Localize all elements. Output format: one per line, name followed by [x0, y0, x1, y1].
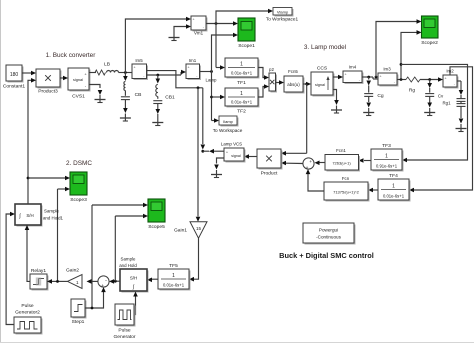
- svg-text:+: +: [193, 18, 195, 22]
- svg-text:7263(u+1): 7263(u+1): [332, 161, 351, 166]
- svg-text:Cv: Cv: [438, 94, 444, 99]
- svg-text:TF3: TF3: [382, 143, 391, 149]
- ground under CB1: [152, 118, 163, 126]
- scope Scope3: [70, 172, 87, 203]
- svg-text:1. Buck converter: 1. Buck converter: [46, 52, 97, 59]
- wire into Scope3 input 2: [58, 187, 71, 282]
- to-workspace block Ilamp / To Workspace: [213, 116, 243, 133]
- wire TF1 to p2 input 1: [258, 68, 269, 80]
- wire buck node up to Vm1 input 1: [125, 17, 191, 73]
- svg-text:p2: p2: [269, 67, 274, 72]
- wire Gain2 to Relay1: [47, 279, 68, 284]
- wire S/H2 output tap up to Scope5 input 2: [115, 214, 148, 282]
- svg-text:and Hold: and Hold: [119, 263, 137, 268]
- wire Product to Lamp VCS: [244, 154, 257, 159]
- controlled current source CCS: [311, 66, 335, 97]
- node Cg junction: [367, 76, 370, 79]
- wire Im4 to Im3: [362, 77, 378, 79]
- svg-text:Scope1: Scope1: [238, 43, 255, 49]
- svg-text:CB1: CB1: [165, 95, 175, 101]
- svg-text:Fcn: Fcn: [342, 176, 350, 181]
- resistor Rg1 branch under Im2: [457, 87, 466, 124]
- svg-text:CB: CB: [135, 92, 142, 98]
- wire lamp power down to Product input 1: [281, 84, 307, 156]
- svg-text:Im4: Im4: [349, 65, 357, 70]
- svg-text:0.01e-6s+1: 0.01e-6s+1: [383, 194, 405, 199]
- wire into Ilamp workspace block: [212, 118, 220, 123]
- svg-text:15: 15: [196, 226, 202, 231]
- node S/H1 output tap to Scope3: [27, 177, 30, 180]
- function block Fcn1: [325, 148, 360, 172]
- current measurement Im5: [132, 58, 148, 80]
- svg-text:Vlamp: Vlamp: [277, 9, 289, 14]
- powergui block: [303, 223, 356, 245]
- wire Im3 tap up to Scope2 input 2: [400, 30, 422, 79]
- resistor Rg: [406, 77, 438, 94]
- wire Pulse Generator2 to S/H1 input: [6, 212, 15, 325]
- wire Im1 signal down to TF2 and Ilamp: [210, 72, 213, 121]
- svg-text:Pulse: Pulse: [21, 303, 34, 309]
- relay block Relay1: [30, 268, 49, 291]
- svg-text:signal: signal: [315, 83, 325, 87]
- transfer function TF5: [158, 263, 191, 291]
- svg-text:TF1: TF1: [237, 80, 246, 86]
- svg-text:Relay1: Relay1: [31, 268, 47, 274]
- ground under Rg1: [456, 124, 467, 132]
- svg-text:Product: Product: [261, 171, 278, 177]
- wire Gain1 down to TF5: [189, 238, 199, 281]
- transfer function TF3: [371, 143, 404, 172]
- svg-text:+: +: [380, 75, 382, 79]
- wire down to Gain1: [196, 88, 201, 222]
- svg-text:Step1: Step1: [72, 319, 85, 325]
- wire Vm1 output up to Vlamp workspace: [216, 9, 273, 24]
- pulse generator block Pulse Generator: [113, 304, 135, 340]
- transfer function TF2: [225, 88, 260, 115]
- svg-text:Constant1: Constant1: [3, 84, 26, 90]
- svg-text:Fcn1: Fcn1: [336, 148, 346, 153]
- svg-text:Scope3: Scope3: [70, 197, 87, 203]
- wire sum1 to Gain2: [87, 279, 98, 284]
- capacitor CB branch (series RLC): [121, 73, 141, 114]
- product block Product: [257, 149, 283, 177]
- svg-text:CVS1: CVS1: [72, 94, 85, 100]
- svg-text:0.01e-6s+1: 0.01e-6s+1: [231, 100, 253, 105]
- svg-text:+: +: [345, 73, 347, 77]
- function block Fcn5 abs(u): [284, 69, 305, 94]
- wire p2 to Fcn5: [276, 80, 285, 85]
- svg-text:180: 180: [10, 72, 19, 78]
- wire TF2 to p2 input 2: [258, 84, 269, 97]
- wire CCS minus to ground: [333, 90, 339, 106]
- scope Scope1: [238, 18, 255, 49]
- svg-text:TF4: TF4: [389, 173, 398, 179]
- sum block sum2: [303, 158, 314, 171]
- controlled voltage source Lamp VCS: [221, 142, 246, 163]
- ground under Vm1 input: [169, 33, 180, 41]
- wire Im5 to Im1 (electrical): [147, 70, 187, 75]
- svg-text:Product3: Product3: [38, 89, 58, 95]
- constant block Constant1 (value 180): [3, 65, 26, 90]
- wire Im2 current to TF4 via right side: [409, 67, 473, 193]
- transfer function TF1: [225, 58, 260, 86]
- svg-text:Rg1: Rg1: [442, 101, 451, 106]
- svg-text:Im1: Im1: [189, 58, 197, 63]
- annotation: 3. Lamp model: [304, 44, 346, 51]
- node CB1 junction: [156, 74, 159, 77]
- inductor LB with series resistance: [89, 62, 132, 76]
- current measurement Im2: [443, 69, 459, 89]
- wire Im5 current signal to lamp section: [147, 71, 203, 88]
- wire Fcn to sum2 bottom: [306, 169, 324, 191]
- svg-text:1: 1: [392, 183, 395, 189]
- sample and hold block S/H1: [15, 204, 64, 227]
- svg-text:TF2: TF2: [237, 109, 246, 115]
- svg-text:1: 1: [172, 273, 175, 279]
- wire Relay1 output up to S/H1 trigger: [25, 225, 30, 281]
- svg-text:CCS: CCS: [317, 66, 328, 72]
- pulse generator block Pulse Generator2: [14, 303, 43, 335]
- wire Pulse Generator to S/H2 trigger: [133, 292, 138, 315]
- gain block Gain2: [66, 268, 82, 289]
- voltage measurement Vm1: [191, 16, 208, 36]
- wire Product3 to CVS1: [60, 76, 68, 81]
- current measurement Im3: [378, 67, 399, 87]
- svg-text:0.01e-6s+1: 0.01e-6s+1: [231, 71, 253, 76]
- svg-text:Generator: Generator: [113, 334, 135, 340]
- svg-text:Vm1: Vm1: [194, 31, 204, 36]
- node buck output junction: [124, 71, 127, 74]
- sum block sum1: [98, 276, 109, 289]
- ground under CB: [120, 114, 131, 122]
- wire Im1 signal up to Scope1 input 2: [212, 33, 239, 72]
- svg-text:signal: signal: [73, 78, 83, 82]
- svg-text:Scope5: Scope5: [148, 224, 165, 230]
- svg-text:Powergui: Powergui: [319, 228, 338, 233]
- svg-text:Im3: Im3: [383, 67, 391, 72]
- svg-text:Generator2: Generator2: [15, 310, 40, 316]
- svg-text:-Continuous: -Continuous: [316, 235, 341, 240]
- wire lamp node to TF3 via right side: [401, 64, 468, 162]
- svg-text:To Workspace1: To Workspace1: [266, 17, 299, 22]
- capacitor Cv branch: [425, 80, 451, 108]
- svg-text:Fcn5: Fcn5: [288, 69, 298, 74]
- svg-text:and Hold1: and Hold1: [43, 216, 64, 221]
- wire TF3 to Fcn1: [359, 158, 372, 163]
- svg-text:71375/(u+1)^2: 71375/(u+1)^2: [333, 190, 360, 195]
- wire CVS1 minus to ground: [89, 85, 102, 96]
- annotation title: Buck + Digital SMC control: [279, 251, 374, 260]
- wire Lamp VCS plus to lamp node: [203, 149, 224, 154]
- wire into Scope3 input 1: [28, 176, 70, 181]
- ground under Cv: [424, 108, 435, 116]
- svg-text:Im5: Im5: [135, 58, 143, 63]
- wire into TF2: [212, 95, 226, 100]
- wire Fcn1 to sum2: [315, 161, 326, 166]
- wire Im1 output junction: [200, 70, 213, 73]
- wire Fcn5 to CCS: [303, 82, 311, 87]
- wire Im3 to Rg: [397, 79, 406, 81]
- svg-text:Sample: Sample: [121, 257, 136, 262]
- svg-text:Scope2: Scope2: [421, 40, 438, 46]
- wire into Im2: [438, 77, 443, 82]
- capacitor CB1 branch (series RLC): [153, 75, 175, 118]
- wire CCS plus to Im4: [333, 75, 343, 80]
- svg-text:Cg: Cg: [377, 93, 384, 99]
- scope Scope2: [421, 16, 438, 46]
- svg-text:abs(u): abs(u): [287, 82, 300, 87]
- wire Vm1 output to Scope1 input 1: [206, 21, 238, 26]
- svg-text:0.01e-6s+1: 0.01e-6s+1: [163, 283, 185, 288]
- function block Fcn: [324, 176, 370, 202]
- product block Product3: [36, 69, 62, 95]
- wire Step1 tap to Scope5 input 1: [92, 203, 148, 308]
- svg-text:+: +: [188, 66, 190, 70]
- wire sum2 to Product input 2: [281, 161, 303, 166]
- svg-text:3. Lamp model: 3. Lamp model: [304, 44, 346, 51]
- wire Lamp VCS minus to ground: [214, 158, 224, 170]
- ground under CCS: [331, 106, 342, 114]
- svg-text:0.91e-6s+1: 0.91e-6s+1: [376, 164, 398, 169]
- capacitor Cg branch: [364, 77, 384, 108]
- svg-text:S/H: S/H: [26, 213, 33, 218]
- wire Constant1 to Product3: [22, 71, 36, 76]
- wire Vm1 output down to TF1: [216, 24, 225, 70]
- annotation: 1. Buck converter: [46, 52, 97, 59]
- svg-text:To Workspace: To Workspace: [213, 128, 243, 133]
- to-workspace block Vlamp / To Workspace1: [266, 8, 299, 22]
- current measurement Im4: [343, 65, 364, 85]
- svg-text:TF5: TF5: [169, 263, 178, 269]
- svg-text:Pulse: Pulse: [118, 328, 131, 334]
- wire Im2 output to Rg1 branch: [457, 81, 461, 87]
- product block p2: [269, 67, 277, 93]
- current measurement Im1: [186, 58, 201, 80]
- svg-text:Ilamp: Ilamp: [223, 119, 234, 124]
- ground under Cg: [363, 108, 374, 116]
- wire Step1 to sum1: [85, 287, 106, 309]
- transfer function TF4: [378, 173, 411, 202]
- wire TF5 to S/H2: [147, 278, 158, 283]
- svg-text:Sample: Sample: [44, 209, 59, 214]
- controlled voltage source CVS1: [68, 68, 91, 100]
- svg-text:Buck + Digital SMC control: Buck + Digital SMC control: [279, 251, 374, 260]
- svg-text:-: -: [105, 277, 107, 283]
- svg-text:+: +: [309, 160, 312, 165]
- node Im4-Im3 voltage tap: [375, 76, 378, 79]
- svg-text:1: 1: [240, 91, 243, 97]
- svg-text:1: 1: [240, 61, 243, 67]
- svg-text:+: +: [445, 77, 447, 81]
- ground under Lamp VCS: [211, 170, 222, 178]
- svg-text:S/H: S/H: [130, 276, 137, 281]
- wire S/H1 output up to Product3 input 2: [28, 78, 36, 204]
- node Lamp net label: [206, 78, 218, 83]
- wire TF4 to Fcn: [368, 188, 378, 193]
- node Cv junction: [428, 78, 431, 81]
- svg-text:Rg: Rg: [409, 88, 416, 94]
- scope Scope5: [148, 199, 165, 230]
- svg-text:Gain2: Gain2: [66, 268, 79, 274]
- annotation: 2. DSMC: [66, 160, 92, 167]
- svg-text:+: +: [134, 66, 136, 70]
- svg-text:Gain1: Gain1: [174, 228, 187, 234]
- ground under CVS1: [95, 95, 106, 103]
- wire voltage tap up to Scope2 input 1: [376, 19, 422, 77]
- wire ground to Vm1 input 2: [174, 24, 191, 33]
- node signal split junction: [197, 86, 200, 89]
- wire down to lamp VCS node: [201, 88, 206, 153]
- gain block Gain1 (15): [174, 222, 207, 239]
- node Im3 output tap: [400, 78, 403, 81]
- step block Step1: [71, 299, 87, 325]
- svg-text:LB: LB: [104, 62, 110, 68]
- wire S/H2 to sum1: [109, 279, 120, 284]
- svg-text:Lamp VCS: Lamp VCS: [221, 142, 242, 147]
- svg-text:1: 1: [76, 280, 79, 285]
- sample and hold block S/H2: [119, 257, 148, 293]
- svg-text:2. DSMC: 2. DSMC: [66, 160, 92, 167]
- svg-text:1: 1: [385, 153, 388, 159]
- svg-text:signal: signal: [231, 154, 241, 158]
